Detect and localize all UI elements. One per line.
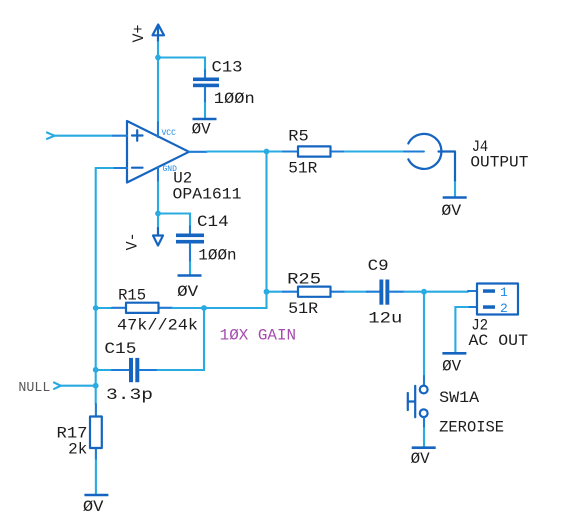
svg-text:ØV: ØV	[411, 450, 431, 468]
svg-text:1: 1	[500, 285, 508, 300]
svg-text:ZEROISE: ZEROISE	[439, 419, 504, 437]
wire C9 to J2 pin 1	[404, 291, 468, 293]
svg-text:R15: R15	[118, 287, 146, 305]
svg-text:ØV: ØV	[177, 283, 199, 301]
op-amp U2	[113, 121, 242, 203]
resistor R25	[283, 270, 345, 318]
connector J2	[468, 284, 528, 351]
svg-text:3.3p: 3.3p	[106, 386, 153, 404]
wire junction to C14	[158, 214, 190, 227]
node junction left rail NULL	[93, 383, 99, 389]
capacitor C14	[176, 213, 237, 265]
ground 0V below C14	[177, 276, 201, 302]
node V+ junction	[155, 55, 161, 61]
wire SW1A to ground	[423, 428, 425, 448]
ground 0V below J2	[442, 353, 466, 375]
ground 0V below J4	[441, 198, 466, 221]
wire C15 right lead up to R15 junction	[156, 308, 204, 370]
wire R25 to C9	[345, 291, 367, 293]
svg-text:ØV: ØV	[441, 202, 462, 220]
wire output junction down feedback rail	[204, 152, 267, 309]
resistor R5	[283, 128, 345, 178]
node V- junction	[155, 211, 161, 217]
svg-text:ØV: ØV	[192, 121, 212, 139]
svg-text:ØV: ØV	[83, 498, 104, 516]
svg-text:51R: 51R	[288, 160, 317, 178]
wire inverting input to left rail	[96, 167, 113, 169]
wire U2 output to R5	[207, 150, 283, 152]
wire R17 to ground	[95, 460, 97, 495]
wire J2 pin2 to ground	[455, 307, 468, 353]
node junction left rail C15	[93, 367, 99, 373]
ground 0V below C13	[192, 119, 217, 139]
node feedback junction at R25 row	[264, 289, 270, 295]
wire C15 left	[96, 369, 112, 371]
svg-text:47k//24k: 47k//24k	[117, 317, 198, 335]
capacitor C15	[104, 340, 156, 404]
svg-text:C15: C15	[104, 340, 136, 358]
node junction left rail R15	[93, 305, 99, 311]
svg-text:2k: 2k	[68, 441, 87, 459]
svg-text:C9: C9	[368, 257, 389, 275]
svg-text:R5: R5	[288, 128, 308, 146]
wire NULL to left rail	[61, 385, 96, 387]
wire R15 to junction	[173, 307, 205, 309]
switch SW1A	[408, 376, 504, 437]
svg-text:OPA1611: OPA1611	[173, 185, 242, 203]
wire U2 GND pin to V- junction	[157, 182, 159, 214]
svg-text:OUTPUT: OUTPUT	[470, 154, 528, 172]
wire V+ stem to junction	[157, 42, 159, 58]
node C9 junction	[421, 289, 427, 295]
ground 0V below SW1A	[411, 448, 436, 468]
svg-text:2: 2	[500, 301, 508, 316]
svg-text:SW1A: SW1A	[439, 389, 480, 407]
capacitor C13	[193, 59, 255, 109]
svg-text:1ØØn: 1ØØn	[214, 90, 255, 108]
svg-text:ØV: ØV	[442, 358, 462, 376]
svg-text:C13: C13	[212, 59, 243, 77]
resistor R15	[112, 287, 198, 335]
ground 0V below R17	[83, 495, 109, 516]
svg-text:51R: 51R	[288, 300, 318, 318]
node output junction	[264, 149, 270, 155]
wire C14 to ground	[189, 262, 191, 276]
wire R15 row left rail	[96, 307, 112, 309]
wire C13 to ground	[204, 103, 206, 119]
wire C9 junction down to SW1A	[423, 292, 425, 376]
wire noninverting input with open end chevron	[47, 133, 113, 139]
wire R5 to J4	[345, 150, 404, 152]
svg-text:12u: 12u	[368, 310, 402, 328]
svg-text:C14: C14	[197, 213, 229, 231]
wire J4 shield to ground	[454, 182, 456, 198]
svg-text:1ØX GAIN: 1ØX GAIN	[220, 326, 296, 344]
svg-text:AC OUT: AC OUT	[469, 332, 529, 350]
power symbol V+	[130, 25, 164, 43]
power symbol V-	[123, 214, 163, 251]
wire V+ junction down to U2 VCC pin	[157, 58, 159, 123]
svg-text:1ØØn: 1ØØn	[198, 247, 236, 265]
label NULL with chevron	[18, 381, 60, 396]
svg-text:R25: R25	[287, 270, 321, 288]
svg-text:VCC: VCC	[162, 129, 177, 138]
svg-text:NULL: NULL	[18, 381, 50, 396]
svg-text:V+: V+	[130, 25, 148, 43]
capacitor C9	[367, 257, 404, 328]
connector J4	[404, 134, 528, 182]
resistor R17	[57, 404, 102, 460]
node junction R15 right	[201, 305, 207, 311]
svg-text:V-: V-	[123, 232, 141, 250]
wire left rail vertical	[95, 168, 97, 404]
wire junction to C13	[158, 58, 205, 71]
wire junction to R25	[267, 291, 284, 293]
